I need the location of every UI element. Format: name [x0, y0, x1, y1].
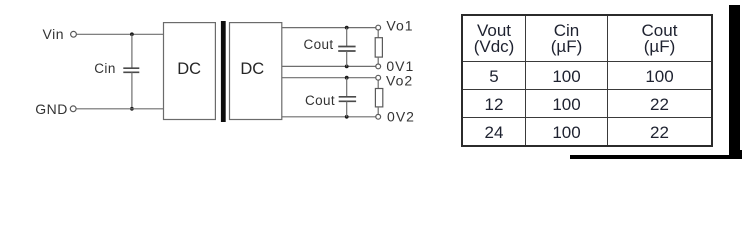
node Vin-Cin junction — [130, 32, 134, 36]
svg-text:GND: GND — [35, 101, 68, 117]
black horizontal bar (page border) — [570, 155, 742, 159]
resistor R2 leg top — [377, 80, 379, 88]
capacitor Cout2 top leg — [346, 78, 348, 97]
wire GND to U1 — [76, 108, 163, 110]
svg-text:DC: DC — [177, 60, 201, 78]
svg-text:DC: DC — [240, 60, 264, 78]
svg-text:Vo2: Vo2 — [386, 73, 413, 89]
svg-text:0V2: 0V2 — [387, 109, 415, 125]
capacitor Cout2 bottom leg — [346, 102, 348, 117]
resistor R1 — [375, 38, 382, 57]
DC block U2 — [230, 23, 282, 120]
svg-text:Cin: Cin — [94, 61, 115, 76]
svg-text:Cout: Cout — [303, 37, 333, 52]
resistor R1 leg top — [377, 30, 379, 38]
terminal 0V1 — [376, 64, 381, 69]
terminal Vin — [71, 31, 77, 37]
terminal GND — [70, 106, 76, 112]
capacitor Cin plates — [123, 68, 139, 72]
wire Vin to U1 — [77, 33, 164, 35]
node Cout2 top junction — [345, 76, 349, 80]
node Cout1 top junction — [345, 26, 349, 30]
node Cout1 bottom junction — [345, 65, 349, 69]
resistor R2 leg bottom — [377, 107, 379, 114]
wire 0V2 — [282, 116, 376, 118]
node Cout2 bottom junction — [345, 115, 349, 119]
capacitor Cout1 bottom leg — [346, 51, 348, 66]
capacitor Cout1 top leg — [346, 28, 348, 47]
terminal 0V2 — [376, 114, 381, 119]
capacitor selection table — [461, 14, 713, 147]
terminal Vo2 — [376, 75, 381, 80]
terminal Vo1 — [376, 25, 381, 30]
resistor R2 — [375, 89, 382, 107]
svg-text:Vin: Vin — [43, 26, 64, 42]
wire Vo2 — [282, 77, 376, 79]
capacitor Cin top leg — [131, 34, 133, 68]
capacitor Cout1 plates — [338, 47, 355, 52]
DC block U1 — [164, 23, 216, 120]
wire 0V1 — [282, 65, 376, 67]
black vertical bar (page border) — [729, 5, 739, 159]
black corner block — [729, 150, 742, 159]
capacitor Cout2 plates — [339, 97, 356, 102]
svg-text:Vo1: Vo1 — [386, 17, 413, 33]
wire Vo1 — [282, 27, 376, 29]
svg-text:Cout: Cout — [305, 93, 335, 108]
resistor R1 leg bottom — [377, 57, 379, 64]
svg-text:0V1: 0V1 — [386, 58, 414, 74]
transformer isolation bar — [221, 21, 226, 122]
schematic SVG — [0, 0, 460, 159]
node Cin-GND junction — [130, 107, 134, 111]
capacitor Cin bottom leg — [131, 72, 133, 108]
